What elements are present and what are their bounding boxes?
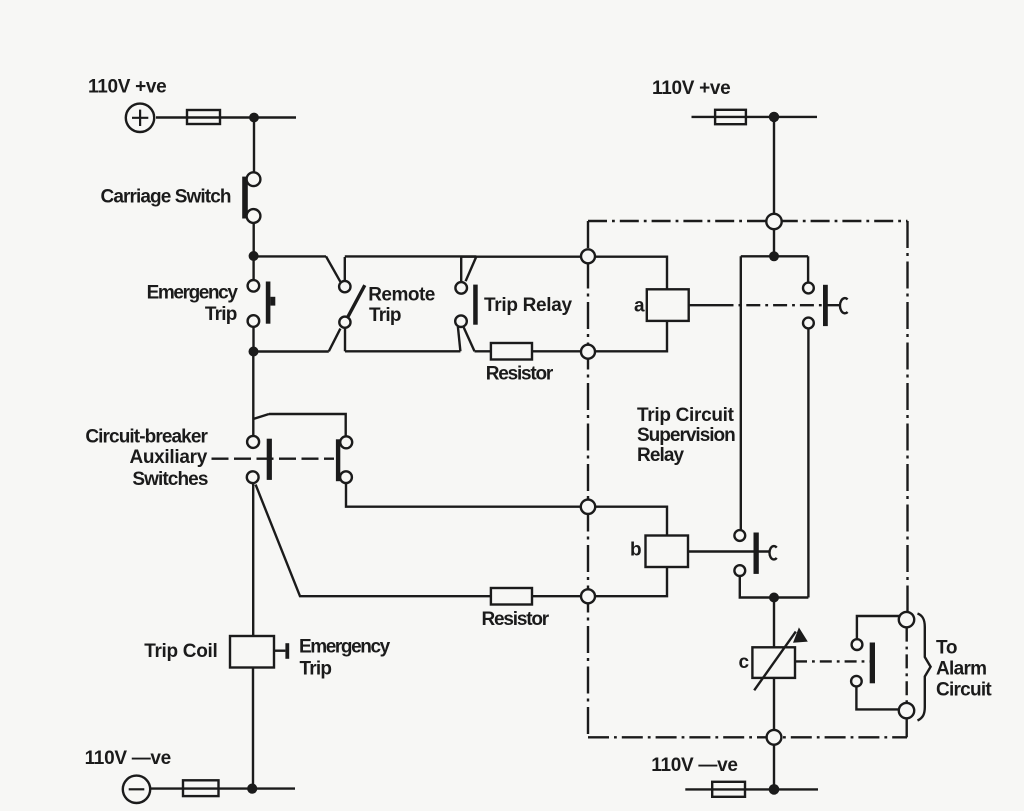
svg-text:110V —ve: 110V —ve: [651, 755, 737, 776]
svg-text:Emergency: Emergency: [299, 636, 391, 657]
svg-text:Carriage Switch: Carriage Switch: [101, 187, 231, 208]
svg-text:b: b: [630, 540, 641, 561]
svg-text:Trip: Trip: [205, 304, 237, 325]
svg-text:Auxiliary: Auxiliary: [129, 447, 207, 468]
svg-text:a: a: [634, 295, 645, 316]
svg-text:Trip Coil: Trip Coil: [144, 641, 217, 662]
svg-text:Switches: Switches: [132, 469, 207, 490]
svg-text:Supervision: Supervision: [637, 425, 735, 446]
svg-text:Trip: Trip: [369, 305, 401, 326]
svg-text:Relay: Relay: [637, 445, 685, 466]
svg-text:To: To: [936, 637, 957, 658]
svg-text:Trip Circuit: Trip Circuit: [637, 405, 735, 426]
svg-text:Alarm: Alarm: [936, 659, 986, 680]
svg-text:Resistor: Resistor: [486, 364, 554, 385]
svg-text:c: c: [739, 652, 750, 673]
svg-text:Trip Relay: Trip Relay: [484, 295, 573, 316]
svg-text:110V +ve: 110V +ve: [652, 78, 730, 99]
svg-text:Emergency: Emergency: [147, 283, 239, 304]
svg-text:Resistor: Resistor: [482, 609, 550, 630]
svg-text:Trip: Trip: [300, 659, 332, 680]
svg-text:Remote: Remote: [368, 285, 435, 306]
svg-text:110V +ve: 110V +ve: [88, 76, 166, 97]
svg-text:110V —ve: 110V —ve: [85, 748, 171, 769]
svg-text:Circuit-breaker: Circuit-breaker: [85, 427, 208, 448]
svg-text:Circuit: Circuit: [936, 679, 992, 700]
